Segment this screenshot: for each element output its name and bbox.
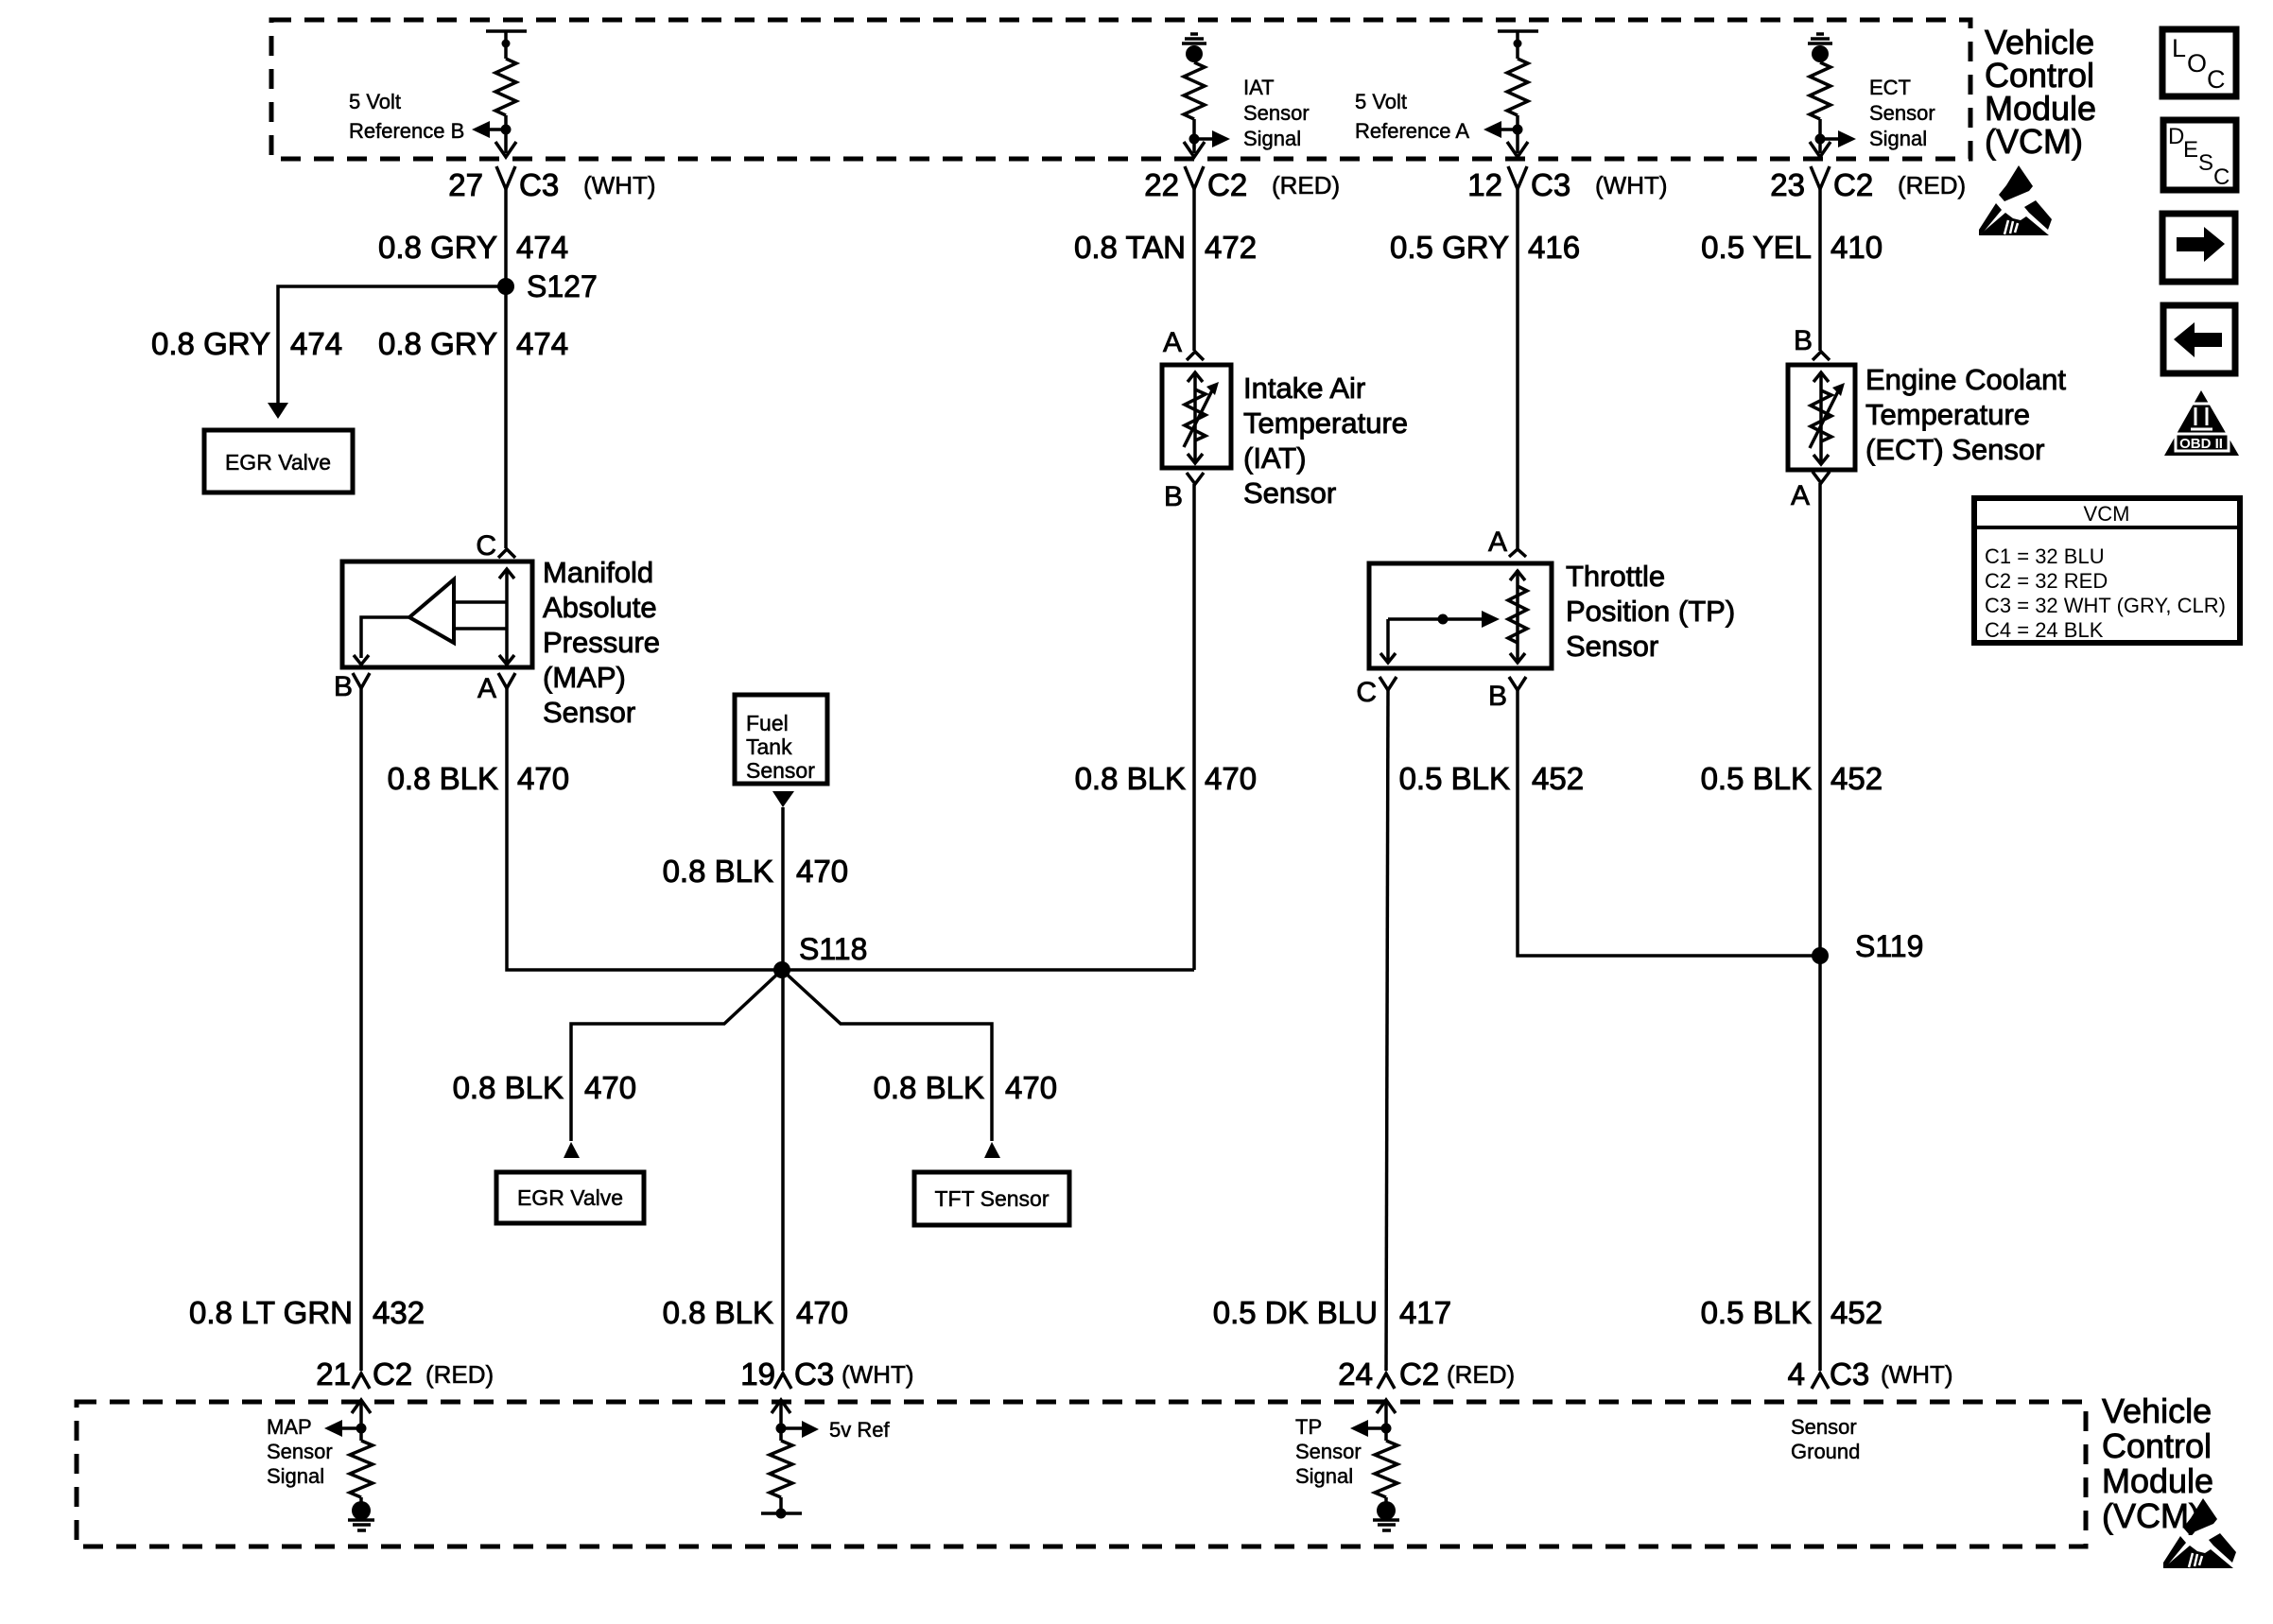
svg-text:C4 = 24 BLK: C4 = 24 BLK bbox=[1985, 618, 2104, 642]
svg-text:Control: Control bbox=[2102, 1426, 2212, 1465]
svg-text:A: A bbox=[477, 673, 496, 704]
svg-text:432: 432 bbox=[373, 1295, 425, 1330]
svg-text:Position (TP): Position (TP) bbox=[1566, 595, 1735, 628]
svg-text:24: 24 bbox=[1338, 1356, 1373, 1391]
svg-text:C3 = 32 WHT (GRY, CLR): C3 = 32 WHT (GRY, CLR) bbox=[1985, 594, 2226, 617]
svg-text:474: 474 bbox=[290, 326, 342, 361]
svg-text:(WHT): (WHT) bbox=[842, 1360, 914, 1389]
svg-text:Tank: Tank bbox=[746, 734, 792, 759]
svg-text:A: A bbox=[1488, 527, 1507, 558]
svg-text:IAT: IAT bbox=[1243, 76, 1275, 99]
svg-text:MAP: MAP bbox=[267, 1415, 312, 1439]
svg-text:474: 474 bbox=[516, 230, 568, 265]
svg-text:S118: S118 bbox=[799, 932, 867, 966]
svg-text:C3: C3 bbox=[1531, 167, 1570, 202]
svg-text:4: 4 bbox=[1788, 1356, 1805, 1391]
svg-text:C: C bbox=[2207, 65, 2226, 94]
svg-text:Sensor: Sensor bbox=[1243, 101, 1310, 125]
svg-text:C2 = 32 RED: C2 = 32 RED bbox=[1985, 569, 2108, 593]
svg-text:0.8 BLK: 0.8 BLK bbox=[663, 854, 773, 889]
svg-text:472: 472 bbox=[1205, 230, 1257, 265]
svg-text:TFT Sensor: TFT Sensor bbox=[935, 1186, 1050, 1211]
svg-text:Intake Air: Intake Air bbox=[1243, 371, 1365, 405]
svg-text:0.5 BLK: 0.5 BLK bbox=[1399, 761, 1510, 796]
svg-text:470: 470 bbox=[517, 761, 569, 796]
svg-text:0.8 GRY: 0.8 GRY bbox=[151, 326, 270, 361]
svg-text:E: E bbox=[2183, 137, 2198, 163]
svg-text:(RED): (RED) bbox=[1898, 171, 1966, 199]
svg-text:Pressure: Pressure bbox=[543, 626, 660, 659]
svg-text:Fuel: Fuel bbox=[746, 711, 789, 735]
svg-text:OBD II: OBD II bbox=[2179, 436, 2223, 452]
svg-text:27: 27 bbox=[448, 167, 483, 202]
svg-text:VCM: VCM bbox=[2084, 502, 2130, 526]
svg-text:Sensor: Sensor bbox=[1566, 630, 1658, 663]
svg-text:0.8 BLK: 0.8 BLK bbox=[453, 1070, 564, 1105]
svg-text:Reference B: Reference B bbox=[349, 119, 464, 143]
svg-text:Reference A: Reference A bbox=[1355, 119, 1469, 143]
svg-text:(IAT): (IAT) bbox=[1243, 441, 1307, 475]
svg-text:Module: Module bbox=[2102, 1461, 2213, 1500]
svg-text:417: 417 bbox=[1399, 1295, 1451, 1330]
svg-text:Temperature: Temperature bbox=[1243, 406, 1408, 440]
svg-text:12: 12 bbox=[1467, 167, 1502, 202]
svg-text:Sensor: Sensor bbox=[1869, 101, 1935, 125]
svg-text:(RED): (RED) bbox=[1447, 1360, 1515, 1389]
svg-text:Manifold: Manifold bbox=[543, 556, 653, 589]
svg-text:5 Volt: 5 Volt bbox=[1355, 90, 1407, 113]
svg-text:0.8 BLK: 0.8 BLK bbox=[663, 1295, 773, 1330]
svg-text:23: 23 bbox=[1770, 167, 1805, 202]
svg-text:(WHT): (WHT) bbox=[1881, 1360, 1953, 1389]
svg-text:416: 416 bbox=[1528, 230, 1580, 265]
svg-text:470: 470 bbox=[796, 854, 848, 889]
svg-text:Signal: Signal bbox=[1869, 127, 1927, 150]
svg-text:S127: S127 bbox=[527, 269, 598, 303]
svg-text:C3: C3 bbox=[794, 1356, 834, 1391]
svg-text:EGR Valve: EGR Valve bbox=[517, 1185, 623, 1210]
svg-text:Sensor: Sensor bbox=[1295, 1440, 1362, 1463]
svg-text:5 Volt: 5 Volt bbox=[349, 90, 401, 113]
svg-text:Sensor: Sensor bbox=[746, 758, 815, 783]
svg-text:EGR Valve: EGR Valve bbox=[225, 450, 331, 475]
svg-text:C2: C2 bbox=[1399, 1356, 1439, 1391]
svg-text:C: C bbox=[1356, 677, 1377, 708]
svg-text:C2: C2 bbox=[1833, 167, 1873, 202]
svg-text:C: C bbox=[2213, 164, 2230, 190]
svg-text:452: 452 bbox=[1831, 1295, 1883, 1330]
svg-text:A: A bbox=[1791, 480, 1810, 511]
svg-text:Vehicle: Vehicle bbox=[2102, 1391, 2212, 1430]
svg-text:O: O bbox=[2187, 49, 2207, 78]
svg-text:Sensor: Sensor bbox=[1243, 476, 1336, 510]
svg-text:ECT: ECT bbox=[1869, 76, 1911, 99]
svg-text:TP: TP bbox=[1295, 1415, 1322, 1439]
svg-text:Absolute: Absolute bbox=[543, 591, 657, 624]
svg-text:470: 470 bbox=[584, 1070, 636, 1105]
svg-text:S: S bbox=[2198, 150, 2213, 176]
svg-text:(RED): (RED) bbox=[1272, 171, 1340, 199]
svg-text:C3: C3 bbox=[519, 167, 559, 202]
svg-text:B: B bbox=[1488, 681, 1507, 712]
svg-text:A: A bbox=[1163, 327, 1182, 358]
svg-text:21: 21 bbox=[316, 1356, 351, 1391]
svg-text:0.8 BLK: 0.8 BLK bbox=[874, 1070, 984, 1105]
svg-text:B: B bbox=[334, 671, 353, 702]
svg-text:(VCM): (VCM) bbox=[1985, 122, 2083, 161]
svg-text:(RED): (RED) bbox=[425, 1360, 494, 1389]
svg-text:C3: C3 bbox=[1830, 1356, 1869, 1391]
svg-text:22: 22 bbox=[1144, 167, 1179, 202]
svg-text:0.8 BLK: 0.8 BLK bbox=[1075, 761, 1186, 796]
svg-text:Signal: Signal bbox=[1295, 1464, 1353, 1488]
svg-text:474: 474 bbox=[516, 326, 568, 361]
svg-text:Signal: Signal bbox=[267, 1464, 324, 1488]
svg-text:B: B bbox=[1164, 481, 1183, 512]
svg-text:410: 410 bbox=[1831, 230, 1883, 265]
svg-text:Sensor: Sensor bbox=[543, 696, 635, 729]
svg-text:0.8 TAN: 0.8 TAN bbox=[1074, 230, 1186, 265]
svg-text:Signal: Signal bbox=[1243, 127, 1301, 150]
svg-text:0.5 DK BLU: 0.5 DK BLU bbox=[1213, 1295, 1378, 1330]
svg-text:(WHT): (WHT) bbox=[1595, 171, 1668, 199]
svg-text:0.5 YEL: 0.5 YEL bbox=[1701, 230, 1812, 265]
svg-text:0.8 GRY: 0.8 GRY bbox=[378, 230, 497, 265]
svg-text:5v Ref: 5v Ref bbox=[829, 1418, 890, 1442]
svg-text:Engine Coolant: Engine Coolant bbox=[1865, 363, 2066, 396]
svg-text:Sensor: Sensor bbox=[1791, 1415, 1857, 1439]
svg-text:0.8 BLK: 0.8 BLK bbox=[388, 761, 498, 796]
svg-text:C1 = 32 BLU: C1 = 32 BLU bbox=[1985, 544, 2105, 568]
svg-text:452: 452 bbox=[1831, 761, 1883, 796]
svg-text:S119: S119 bbox=[1855, 929, 1923, 963]
svg-text:(MAP): (MAP) bbox=[543, 661, 626, 694]
svg-text:C: C bbox=[476, 530, 496, 561]
svg-text:Sensor: Sensor bbox=[267, 1440, 333, 1463]
svg-text:L: L bbox=[2172, 34, 2186, 62]
svg-text:470: 470 bbox=[1205, 761, 1257, 796]
svg-text:0.5 BLK: 0.5 BLK bbox=[1701, 1295, 1812, 1330]
svg-text:470: 470 bbox=[796, 1295, 848, 1330]
svg-text:Temperature: Temperature bbox=[1865, 398, 2030, 431]
svg-text:B: B bbox=[1794, 325, 1813, 356]
svg-text:452: 452 bbox=[1532, 761, 1584, 796]
svg-text:(ECT) Sensor: (ECT) Sensor bbox=[1865, 433, 2044, 466]
svg-text:0.5 BLK: 0.5 BLK bbox=[1701, 761, 1812, 796]
svg-text:C2: C2 bbox=[373, 1356, 412, 1391]
svg-text:0.8 GRY: 0.8 GRY bbox=[378, 326, 497, 361]
svg-text:(WHT): (WHT) bbox=[583, 171, 656, 199]
svg-text:470: 470 bbox=[1005, 1070, 1057, 1105]
svg-text:0.8 LT GRN: 0.8 LT GRN bbox=[189, 1295, 353, 1330]
svg-text:Ground: Ground bbox=[1791, 1440, 1860, 1463]
svg-text:Throttle: Throttle bbox=[1566, 560, 1665, 593]
svg-text:19: 19 bbox=[740, 1356, 775, 1391]
svg-text:0.5 GRY: 0.5 GRY bbox=[1390, 230, 1509, 265]
svg-text:C2: C2 bbox=[1207, 167, 1247, 202]
svg-text:D: D bbox=[2168, 124, 2184, 149]
